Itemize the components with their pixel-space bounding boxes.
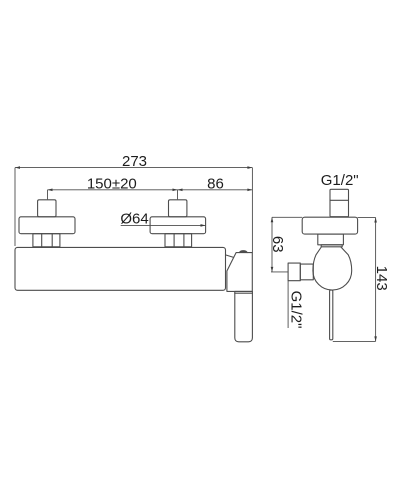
svg-text:G1/2": G1/2" [321, 172, 359, 189]
svg-text:273: 273 [122, 153, 147, 170]
svg-text:63: 63 [269, 236, 286, 253]
svg-text:G1/2": G1/2" [288, 291, 305, 329]
svg-text:143: 143 [373, 266, 390, 291]
svg-text:Ø64: Ø64 [120, 211, 148, 228]
svg-text:86: 86 [207, 175, 224, 192]
svg-text:150±20: 150±20 [87, 175, 137, 192]
